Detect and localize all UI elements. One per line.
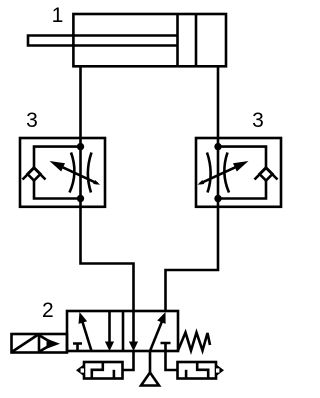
right valve check valve seat — [255, 168, 278, 180]
flow control valve 3 (left) enclosure — [20, 138, 105, 207]
left valve adjust arrow tail tip — [93, 180, 100, 185]
left valve adjust arrow shaft — [63, 167, 98, 183]
right valve throttle arc left — [207, 153, 211, 193]
wire right: cylinder to valve 3 to 5/2 port 2 — [166, 66, 219, 311]
cylinder A body — [73, 14, 226, 66]
right valve bypass loop — [218, 147, 266, 199]
svg-text:1: 1 — [52, 4, 64, 27]
junction dot left-bottom — [77, 195, 84, 202]
right valve adjust arrow head — [233, 161, 249, 172]
cylinder piston (left line) — [176, 14, 179, 66]
solenoid divider — [38, 334, 41, 353]
right square diagonal arrow head — [157, 312, 165, 324]
right valve throttle arc right — [224, 153, 229, 193]
junction dot right-top — [214, 143, 221, 150]
right silencer pattern stub — [185, 370, 188, 379]
right silencer body — [178, 362, 217, 379]
right silencer pattern step — [197, 362, 208, 379]
port 3 exhaust wire — [166, 351, 178, 370]
supply triangle — [141, 373, 159, 386]
svg-text:2: 2 — [42, 299, 54, 322]
left square diagonal arrow shaft — [83, 322, 92, 351]
right valve check valve diamond — [260, 168, 273, 181]
solenoid box — [12, 334, 68, 353]
right square down arrow shaft — [132, 311, 135, 344]
right square down arrow head — [129, 342, 138, 352]
left valve check valve diamond — [28, 168, 41, 181]
port 1 supply wire — [149, 351, 152, 373]
svg-text:3: 3 — [252, 109, 264, 132]
junction dot right-bottom — [214, 195, 221, 202]
cylinder piston rod — [28, 36, 178, 46]
left valve throttle arc right — [88, 153, 92, 193]
solenoid pilot chevron — [40, 336, 54, 352]
solenoid coil diagonal — [13, 335, 38, 352]
port 5 exhaust wire — [123, 351, 134, 370]
left silencer nipple — [76, 364, 84, 376]
5/2 valve body — [67, 311, 178, 351]
junction dot left-top — [77, 143, 84, 150]
wire left: cylinder to valve 3 to 5/2 port 4 — [81, 66, 134, 311]
left square blocked port T — [73, 344, 82, 352]
left valve throttle arc left — [70, 153, 75, 193]
svg-text:3: 3 — [26, 109, 38, 132]
right valve adjust arrow shaft — [200, 167, 235, 183]
right silencer nipple notch — [216, 368, 219, 372]
left silencer body — [84, 362, 123, 379]
left square diagonal arrow head — [79, 312, 88, 324]
left silencer pattern stub — [113, 370, 116, 379]
left valve bypass loop — [34, 147, 81, 199]
left square down arrow shaft — [108, 311, 111, 344]
solenoid pilot arrow head — [47, 339, 61, 349]
right valve adjust arrow tail tip — [198, 180, 205, 185]
right silencer nipple — [216, 364, 224, 376]
left silencer nipple notch — [81, 368, 84, 372]
return spring — [178, 333, 210, 351]
left silencer pattern step — [92, 362, 103, 379]
flow control valve 3 (right) enclosure — [196, 138, 281, 207]
left valve adjust arrow head — [50, 161, 66, 172]
left valve check valve seat — [23, 168, 46, 180]
cylinder piston (right line) — [195, 14, 198, 66]
right square diagonal arrow shaft — [150, 322, 162, 351]
5/2 valve divider — [122, 311, 125, 351]
left square down arrow head — [105, 342, 114, 352]
right square blocked port T — [161, 343, 171, 351]
